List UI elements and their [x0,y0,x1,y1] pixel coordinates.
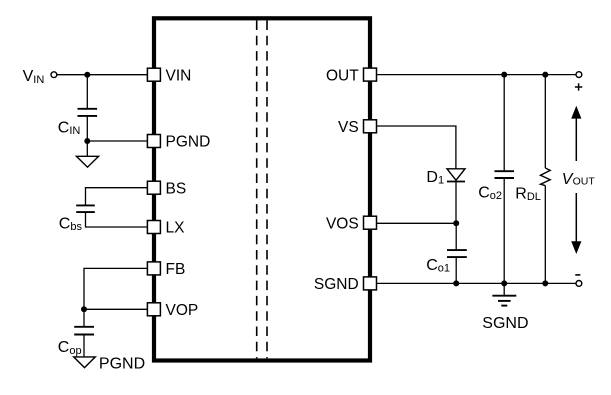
svg-text:OUT: OUT [573,175,596,187]
node VIN junction [84,72,90,78]
wire Co2 top [503,75,505,171]
wire RDL bottom [544,186,546,284]
wire CIN top [86,75,88,108]
wire D1 cathode [455,182,457,224]
pin BS [147,180,186,197]
label VIN source [23,68,45,86]
terminal - output [575,275,582,286]
svg-text:PGND: PGND [166,134,211,151]
wire CIN bottom [86,117,88,142]
pin VOP [147,302,198,319]
capacitor Cbs [59,205,95,233]
node PGND junction [84,138,90,144]
node OUT RDL junction [542,72,548,78]
internal dashed divider line 2 [266,21,268,359]
wire SGND [377,282,577,284]
capacitor Co2 [478,171,514,202]
wire ground stem left top [86,141,88,156]
wire LX [86,213,148,227]
pin VOS [326,215,377,232]
svg-text:LX: LX [166,220,186,237]
svg-text:SGND: SGND [314,276,359,293]
node VOS junction [453,220,459,226]
svg-text:BS: BS [166,180,187,197]
node OUT Co2 junction [501,72,507,78]
wire PGND pin [87,140,147,142]
wire VOS [377,222,457,224]
pin PGND [147,134,210,151]
svg-text:VIN: VIN [166,67,192,84]
wire FB [84,268,147,309]
IC body [154,18,370,360]
label VOUT [561,161,597,193]
wire VS [377,126,456,169]
wire Co1 bottom [455,258,457,284]
node SGND RDL junction [542,280,548,286]
wire Cop bottom [83,335,85,357]
ground PGND triangle bottom [74,355,145,372]
wire RDL top [544,75,546,168]
svg-text:SGND: SGND [482,315,528,332]
internal dashed divider line 1 [256,21,258,359]
pin VIN [147,67,191,84]
ground PGND triangle top [76,156,98,167]
node SGND Co1 junction [453,280,459,286]
svg-text:VS: VS [338,119,359,136]
wire Co1 top [455,223,457,249]
wire OUT [377,74,577,76]
pin OUT [326,67,377,84]
terminal + output [575,72,582,91]
node VOP junction [81,306,87,312]
wire Co2 bottom [503,179,505,284]
ground SGND earth symbol [482,283,528,331]
capacitor CIN [58,109,97,137]
node SGND Co2 junction [501,280,507,286]
capacitor Cop [58,327,94,357]
svg-text:FB: FB [166,261,186,278]
wire BS [86,188,148,205]
wire VOP pin [84,308,147,310]
terminal VIN [51,72,57,78]
pin LX [147,220,185,237]
pin FB [147,261,185,278]
pin VS [338,119,376,136]
resistor RDL [515,168,550,203]
svg-text:VOS: VOS [326,215,359,232]
VOUT arrow [571,106,581,254]
diode D1 [426,169,465,187]
svg-text:VOP: VOP [166,302,199,319]
pin SGND [314,276,377,293]
svg-text:PGND: PGND [99,355,145,372]
capacitor Co1 [426,250,467,274]
wire VIN input [57,74,148,76]
wire Cop top [83,309,85,326]
svg-text:OUT: OUT [326,67,359,84]
